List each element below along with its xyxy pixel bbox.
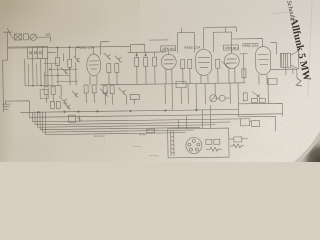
svg-text:RENS 1264: RENS 1264: [78, 45, 94, 49]
svg-text:RENS 1254: RENS 1254: [242, 44, 258, 48]
svg-text:als wil der: als wil der: [94, 135, 105, 138]
svg-text:an der: an der: [139, 133, 146, 136]
svg-text:RENS 1254: RENS 1254: [185, 45, 201, 49]
svg-text:220: 220: [45, 33, 50, 37]
svg-text:REN 904: REN 904: [163, 47, 176, 51]
svg-text:REN 904: REN 904: [226, 46, 239, 50]
